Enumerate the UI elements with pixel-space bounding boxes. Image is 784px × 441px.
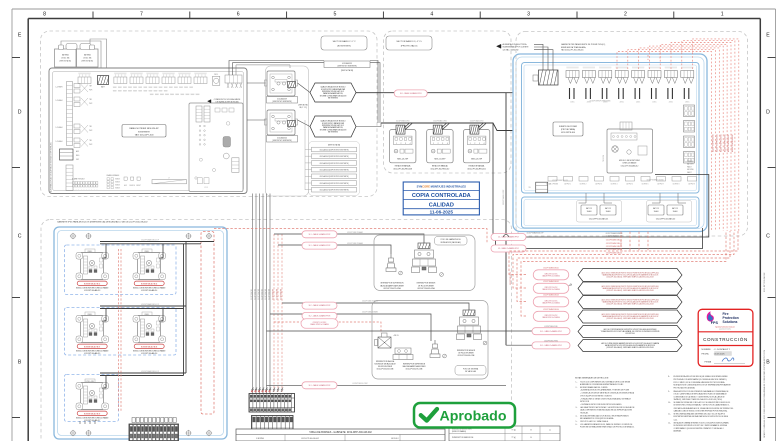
svg-text:6: 6	[237, 12, 240, 18]
svg-text:TAG: 0152-DPT-300: TAG: 0152-DPT-300	[135, 134, 155, 137]
node stacked black tags	[527, 232, 623, 238]
svg-text:OUTPUT 4: OUTPUT 4	[611, 183, 618, 185]
node feed annotation	[497, 43, 530, 51]
svg-text:SYNCORE MONTAJES INDUSTRIALES: SYNCORE MONTAJES INDUSTRIALES	[417, 185, 467, 189]
node vertical feed label	[50, 142, 53, 192]
svg-text:TBR: TBR	[89, 99, 92, 101]
svg-text:DE FLUJO EN RISER: DE FLUJO EN RISER	[418, 285, 435, 287]
svg-text:CONSTRUCCIÓN: CONSTRUCCIÓN	[703, 336, 748, 342]
node gabinete fuente annotation	[561, 59, 599, 65]
svg-text:PWR: PWR	[89, 144, 92, 146]
svg-text:TT [x]: TT [x]	[511, 437, 516, 439]
node sector bakko 1y2 zone	[41, 31, 378, 197]
node riser wire lugs	[251, 388, 283, 392]
node gabinete pms annotation	[561, 43, 606, 51]
wire SL1 bottom return	[267, 384, 507, 386]
svg-text:CONEXION T.B. NO ES ALCANCE: CONEXION T.B. NO ES ALCANCE	[214, 98, 241, 101]
node panel status LEDs row	[72, 178, 98, 191]
svg-text:0152DPTDBPWR24VDC: 0152DPTDBPWR24VDC	[728, 133, 730, 152]
node zone circuit row Z3	[56, 124, 93, 134]
wire SLC return	[236, 65, 290, 75]
wire module bus group1 pair	[100, 242, 214, 244]
op-amp M2 monitor module AM-014	[133, 249, 165, 292]
node label TS-015B	[403, 364, 427, 371]
node field devices zone	[41, 220, 512, 441]
node stacked red tags	[606, 239, 622, 255]
svg-text:1: 1	[470, 143, 471, 145]
node PSU output terminal blocks	[566, 67, 694, 104]
op-amp U3 power supply cabinet enclosure	[513, 54, 707, 232]
node cable tag A1L	[302, 231, 337, 238]
svg-text:0152-DPT-300-SV-015B: 0152-DPT-300-SV-015B	[377, 369, 394, 371]
node AUX SILENCE RESET buttons	[124, 177, 141, 187]
svg-text:2: 2	[400, 143, 401, 145]
svg-text:TAG 0152-DPT-300-GB-001: TAG 0152-DPT-300-GB-001	[561, 49, 584, 52]
svg-text:120 VAC / 50/60 HZ: 120 VAC / 50/60 HZ	[503, 48, 520, 51]
svg-text:(PROYECTADA): (PROYECTADA)	[561, 128, 576, 131]
node cable tag 24vdc row 3	[533, 293, 569, 307]
node panel output connector TB4	[225, 75, 242, 88]
node wire hop	[504, 235, 509, 238]
svg-text:0152-DPPS-300-BAT-002: 0152-DPPS-300-BAT-002	[656, 217, 675, 220]
svg-text:GABINETE PMS PARA FUENTE DE PO: GABINETE PMS PARA FUENTE DE PODER P02-6(…	[561, 43, 606, 46]
svg-text:MODULO: MODULO	[391, 438, 399, 440]
node riser terminal strip upper	[249, 391, 295, 413]
svg-text:PWR: PWR	[89, 90, 92, 92]
node group B title	[455, 366, 486, 376]
svg-text:Aprobado: Aprobado	[440, 408, 507, 424]
svg-text:SECTOR BAKKO 3, 4 Y 5: SECTOR BAKKO 3, 4 Y 5	[396, 40, 422, 43]
wire SL2 field B1	[282, 303, 469, 310]
transistor S2 manual station HSG-010	[427, 120, 453, 171]
node valve group B boundary	[372, 301, 488, 380]
node callout hexagon row 2	[578, 282, 682, 295]
svg-text:0152DPTDBPWR24VDC: 0152DPTDBPWR24VDC	[724, 133, 726, 152]
wire drop to M5	[103, 376, 107, 389]
node AC terminal block (hatched)	[533, 70, 558, 85]
battery B2	[77, 44, 99, 68]
svg-text:1-2 HIGH: 1-2 HIGH	[56, 100, 64, 102]
svg-text:GRAFICO-CADXXXX-0152-21063-000: GRAFICO-CADXXXX-0152-21063-00005 REV.0 D…	[763, 349, 766, 438]
svg-text:Solutions: Solutions	[723, 320, 738, 324]
wire red hook inner pair	[648, 53, 660, 60]
node cable tag 24vdc row 1	[533, 266, 569, 280]
svg-text:J7: J7	[168, 178, 170, 180]
node document id vertical	[763, 349, 766, 438]
node COPIA CONTROLADA stamp	[403, 182, 479, 215]
node sector 1y2 label	[321, 36, 367, 50]
transistor S1 manual station HSG-008	[390, 120, 416, 171]
svg-text:PWR: PWR	[89, 103, 92, 105]
node panel top terminal blocks TB1	[78, 73, 207, 84]
node panel nameplate	[122, 125, 166, 138]
svg-text:[DISPOSITIVO EXISTENTE]: [DISPOSITIVO EXISTENTE]	[337, 66, 357, 68]
node callout hexagon row 4	[578, 310, 682, 323]
node valve group A boundary	[374, 235, 475, 291]
node panel silk texture rows	[113, 87, 199, 95]
wire SL2 field B2	[270, 314, 431, 341]
op-amp U4 monitor module AM-012	[607, 122, 653, 173]
node cable tag A2L	[302, 242, 337, 249]
svg-text:CIRCUITO 24 VDC: CIRCUITO 24 VDC	[545, 273, 559, 275]
svg-text:0152DPTDBMNTFLOOR: 0152DPTDBMNTFLOOR	[552, 180, 568, 182]
svg-text:24VDC: 24VDC	[669, 102, 673, 104]
node cable tag 24vdc row 4	[533, 308, 569, 322]
svg-text:NOMBRE: NOMBRE	[702, 349, 712, 351]
wire AC feed lines	[534, 44, 553, 70]
svg-text:OUTPUT 6: OUTPUT 6	[642, 183, 649, 185]
svg-text:8: 8	[43, 12, 46, 18]
svg-text:24VDC: 24VDC	[570, 102, 574, 104]
svg-text:OUTPUT 9: OUTPUT 9	[688, 183, 695, 185]
svg-text:OUTPUT 2: OUTPUT 2	[580, 183, 587, 185]
wire D2 to H2	[298, 120, 311, 127]
wire SLC trunk to right panel	[356, 92, 545, 94]
svg-text:OUTPUT 3: OUTPUT 3	[595, 183, 602, 185]
svg-text:0152DPTDBSDSLCRET: 0152DPTDBSDSLCRET	[352, 383, 367, 385]
node wire tag field2	[347, 242, 363, 245]
svg-text:0152-DPT-300-HSG-011: 0152-DPT-300-HSG-011	[467, 168, 486, 170]
svg-text:1: 1	[396, 143, 397, 145]
node fuente de poder label	[553, 122, 583, 136]
svg-text:+PR IVL: +PR IVL	[393, 335, 399, 337]
svg-text:ESTACION MANUAL: ESTACION MANUAL	[432, 165, 448, 168]
transistor tamper B	[430, 340, 446, 358]
node gabinete modulos header	[57, 220, 148, 223]
wire modules to terminal strip	[80, 421, 95, 424]
svg-text:24VDC: 24VDC	[652, 102, 656, 104]
node cable tag 24vdc row 2	[533, 280, 569, 294]
svg-text:PANEL NOTIFIER NFS-320-SP: PANEL NOTIFIER NFS-320-SP	[129, 127, 159, 130]
node wire tag group3	[141, 370, 159, 373]
node cable tag B2L	[302, 312, 337, 319]
svg-text:(PROYECTADO): (PROYECTADO)	[401, 45, 418, 48]
svg-text:: C. GONZALEZ T.: : C. GONZALEZ T.	[713, 348, 731, 351]
wire panel to device D2	[247, 119, 266, 121]
svg-text:OTROS EQUIPOS EXISTENTES O NUE: OTROS EQUIPOS EXISTENTES O NUEVOS	[580, 395, 612, 397]
svg-text:CALIDAD: CALIDAD	[429, 202, 454, 208]
battery B1	[55, 44, 78, 68]
svg-text:4: 4	[410, 143, 411, 145]
node bus rotated tag red	[510, 272, 512, 285]
node panel battery connector BATT (hatched)	[98, 76, 110, 89]
node mounting holes bottom	[70, 430, 212, 436]
svg-text:NBG-12LXSP: NBG-12LXSP	[471, 159, 483, 161]
battery bank 1	[577, 193, 622, 222]
node callout hexagon slc feed	[578, 340, 682, 352]
wire panel to device D1	[247, 82, 266, 84]
svg-text:ALIMENTACION AC DE ALARMA DE I: ALIMENTACION AC DE ALARMA DE INCENDIO [V…	[50, 142, 53, 192]
wire 24vdc red hook bundle	[617, 39, 739, 231]
wire trunk pair g1-g2	[184, 242, 187, 309]
svg-text:5: 5	[334, 12, 337, 18]
node right power zone boundary	[516, 32, 748, 237]
svg-text:: 04.06.2025: : 04.06.2025	[713, 354, 725, 356]
node mounting holes top	[70, 233, 212, 239]
svg-text:DETECCION: DETECCION	[580, 401, 589, 403]
node relay block	[528, 182, 547, 193]
node TBL power block	[60, 149, 81, 161]
svg-text:0152DPTDBPWR24VDC: 0152DPTDBPWR24VDC	[720, 133, 722, 152]
svg-text:C: C	[766, 234, 770, 240]
svg-text:0152-DPPS-300-BAT-001: 0152-DPPS-300-BAT-001	[589, 217, 608, 220]
svg-text:FUENTE DE PODER: FUENTE DE PODER	[559, 126, 578, 128]
node cable tag slc feed	[532, 340, 570, 349]
svg-text:INTERRUPTOR SENSOR: INTERRUPTOR SENSOR	[457, 350, 476, 352]
wire AW box to dropline	[370, 61, 380, 124]
svg-text:D: D	[766, 110, 770, 116]
svg-text:xx: xx	[549, 429, 551, 431]
wire slc return row	[267, 330, 533, 332]
svg-text:N BORNE: N BORNE	[256, 438, 265, 440]
svg-text:B: B	[530, 429, 531, 431]
svg-text:TT [x]: TT [x]	[511, 429, 516, 431]
svg-text:OUTPUT 5: OUTPUT 5	[626, 183, 633, 185]
op-amp U2 panel CPU board	[189, 103, 243, 192]
node callout hexagon row 1	[578, 269, 682, 282]
wire 24vdc solenoid red	[274, 322, 381, 333]
svg-text:3: 3	[442, 143, 443, 145]
node trunk rotated tag	[502, 190, 505, 205]
wire riser tags	[250, 289, 283, 300]
svg-text:SECTOR BAKKO 1 Y 2: SECTOR BAKKO 1 Y 2	[333, 40, 357, 43]
svg-text:CIRCUITO 24 VDC: CIRCUITO 24 VDC	[545, 300, 559, 302]
svg-text:E: E	[18, 33, 22, 39]
node sector bakko 345 zone	[384, 31, 512, 173]
op-amp U1 panel NOTIFIER NFS-320-SP enclosure	[49, 68, 247, 194]
svg-text:DILUVIO EN RISER: DILUVIO EN RISER	[378, 366, 393, 368]
node cable tag slc return	[532, 326, 570, 335]
node wire tag group2	[141, 303, 159, 306]
svg-text:B: B	[766, 360, 770, 366]
wire SLC out to AW box	[229, 61, 324, 76]
svg-text:3: 3	[527, 12, 530, 18]
node wire tag field1	[347, 231, 363, 234]
node label SV-015B	[374, 360, 395, 371]
transistor FS-015A flow switch	[412, 243, 444, 276]
node zone circuit row Z1	[56, 84, 93, 94]
svg-text:4: 4	[430, 12, 433, 18]
wire riser bundle red	[274, 234, 282, 394]
svg-text:4: 4	[484, 143, 485, 145]
svg-text:[DISPOSITIVO EXISTENTE]: [DISPOSITIVO EXISTENTE]	[272, 140, 292, 142]
wire drop to M3	[103, 309, 107, 322]
svg-text:PWR: PWR	[89, 130, 92, 132]
node trouble contact symbol	[562, 284, 571, 290]
node device cluster enclosure	[266, 66, 309, 196]
svg-text:4: 4	[447, 143, 448, 145]
wire module bus group2 pair	[100, 306, 186, 309]
wire red supervised pair vertical	[119, 249, 122, 412]
node cable tag right A	[491, 234, 526, 241]
node wire tag group1	[141, 238, 159, 241]
node label FS-015A	[417, 283, 437, 290]
node module group 1 boundary	[65, 245, 177, 295]
svg-text:GABINETE IP66 PARA MODULOS (EM: GABINETE IP66 PARA MODULOS (EMERGENCIA) …	[57, 220, 148, 223]
wire D1 to H1	[298, 83, 311, 93]
node label TS-015A	[380, 283, 404, 290]
node callout hexagon row 3	[578, 296, 682, 309]
svg-text:FECHA: FECHA	[702, 353, 710, 356]
node strip pre-row	[132, 418, 176, 423]
svg-text:3B, 1 Y 5]: 3B, 1 Y 5]	[299, 107, 307, 109]
op-amp M5 relay module AM-017	[76, 379, 108, 422]
svg-text:ALIMENTACION ELECTRICA: ALIMENTACION ELECTRICA	[503, 43, 528, 46]
battery bank 2	[647, 193, 692, 222]
wire SL1 field A2	[278, 245, 391, 254]
wire module bus group3 pair	[100, 373, 186, 376]
node ver nota label	[299, 104, 309, 110]
svg-text:CIRCUITO 24 VDC: CIRCUITO 24 VDC	[545, 287, 559, 289]
node module group 3 boundary	[65, 375, 119, 422]
svg-text:DIRECCIONABLE: DIRECCIONABLE	[623, 162, 638, 165]
svg-text:11-06-2025: 11-06-2025	[430, 209, 454, 214]
wire slc branch row2	[496, 228, 703, 249]
svg-text:E: E	[766, 33, 770, 39]
svg-text:NBG-12LXSP: NBG-12LXSP	[397, 159, 409, 161]
op-amp M4 monitor module AM-016	[133, 312, 165, 355]
svg-text:1: 1	[433, 143, 434, 145]
wire stations bus	[381, 123, 528, 131]
node wire tag bottom	[352, 383, 367, 385]
svg-text:0152-DPT-300-GB-002: 0152-DPT-300-GB-002	[764, 273, 766, 292]
node TB-DCOM vertical tag	[603, 154, 605, 162]
svg-text:1: 1	[721, 12, 724, 18]
wire drop to M2	[160, 244, 164, 258]
svg-text:3: 3	[405, 143, 406, 145]
node wire tag field3	[362, 300, 378, 303]
svg-text:NOTAS GENERALES DE DETECCION: NOTAS GENERALES DE DETECCION	[575, 377, 609, 380]
svg-text:7: 7	[140, 12, 143, 18]
svg-text:OUTPUT 7: OUTPUT 7	[657, 183, 664, 185]
node red supervised conduit	[201, 232, 214, 415]
svg-text:FPS: FPS	[711, 321, 719, 325]
svg-text:24VDC: 24VDC	[620, 102, 624, 104]
svg-text:GROUND: GROUND	[687, 169, 695, 171]
node signal output row	[546, 177, 697, 186]
wire SL1 field A1	[274, 234, 424, 243]
svg-text:0152-DPT-300-FS-015B: 0152-DPT-300-FS-015B	[458, 355, 475, 357]
svg-text:TBR: TBR	[89, 126, 92, 128]
svg-text:J2 J3: J2 J3	[204, 187, 208, 189]
svg-text:B: B	[18, 360, 22, 366]
transistor D2 existing device 0152-AW-340	[265, 110, 298, 142]
svg-text:0152-DPPS-300: 0152-DPPS-300	[561, 132, 575, 134]
transistor FS-015B flow switch	[457, 310, 487, 345]
node cable tag right B	[491, 245, 526, 252]
svg-text:1-2 HIGH: 1-2 HIGH	[56, 127, 64, 129]
node page ref vertical	[764, 273, 766, 292]
node enable-disable switch block	[107, 174, 121, 189]
wire red drops under panel	[621, 232, 648, 252]
svg-text:0152DPTDBPWR24VDC: 0152DPTDBPWR24VDC	[732, 133, 734, 152]
transistor TS-015A tamper switch	[386, 254, 402, 275]
svg-text:EXISTENTE: EXISTENTE	[138, 131, 150, 133]
node ribbon connector J7	[152, 178, 187, 184]
wire SLC out 2	[233, 63, 325, 75]
transistor D1 existing device 0152-AW-339	[265, 71, 298, 103]
svg-text:INTERRUPTOR SUPERVISION: INTERRUPTOR SUPERVISION	[403, 364, 425, 366]
node AW-339 existing device label box	[324, 61, 370, 72]
node module summary table	[449, 426, 560, 441]
wire drop to M4	[160, 309, 164, 322]
svg-text:COPIA CONTROLADA: COPIA CONTROLADA	[412, 193, 471, 199]
node zone circuit row Z4	[56, 138, 93, 148]
node riser cable tags rotated	[713, 133, 735, 152]
wire slc feed row	[506, 344, 532, 346]
svg-text:[VER NOTA 3B]: [VER NOTA 3B]	[328, 144, 340, 147]
node piezo sounder	[213, 74, 220, 86]
svg-text:SILENCE: SILENCE	[129, 185, 135, 187]
transistor SV-015B solenoid	[375, 333, 399, 348]
svg-text:[DISPOSITIVO EXISTENTE]: [DISPOSITIVO EXISTENTE]	[272, 101, 292, 103]
node module group 2 boundary	[65, 308, 177, 356]
svg-text:DE YAZPACK [VER NOTA 3B]: DE YAZPACK [VER NOTA 3B]	[216, 101, 239, 104]
svg-text:0152-DPT-300-TS-015B: 0152-DPT-300-TS-015B	[406, 369, 423, 371]
svg-text:0152-DPT-300-HSG-010: 0152-DPT-300-HSG-010	[431, 168, 450, 170]
svg-text:MODULO DE MONITOREO: MODULO DE MONITOREO	[619, 160, 641, 162]
node zone circuit row Z2	[56, 97, 93, 107]
wire trunk pair g2-g3	[184, 306, 187, 376]
svg-text:EN TERRENO: EN TERRENO	[328, 131, 339, 133]
wire slc branch row1	[493, 123, 709, 237]
wire hexagon H2 to bus	[356, 123, 381, 127]
node conexion note	[208, 98, 242, 104]
wire nested 24vdc red bus	[509, 231, 738, 316]
svg-text:RESET: RESET	[136, 185, 141, 187]
svg-text:CIRCUITO 24 VDC: CIRCUITO 24 VDC	[545, 315, 559, 317]
wire trunk drop	[505, 93, 507, 346]
svg-text:0152-DPT-300: 0152-DPT-300	[625, 333, 635, 335]
op-amp M3 monitor module AM-015	[76, 312, 108, 355]
svg-text:C: C	[18, 234, 22, 240]
svg-text:TABLA DE BORNES - GABINETE:: TABLA DE BORNES - GABINETE: 0152-DPP-300…	[309, 431, 372, 434]
svg-text:OUTPUT 1: OUTPUT 1	[564, 183, 571, 185]
wire red supervised loop A	[214, 229, 487, 243]
svg-text:0152-DTP-300-AM-012: 0152-DTP-300-AM-012	[621, 164, 639, 167]
node wire tag psu	[590, 100, 611, 103]
node callout hexagon H1	[310, 83, 356, 102]
transistor S3 manual station HSG-011	[463, 120, 489, 171]
svg-text:3: 3	[479, 143, 480, 145]
svg-text:EN TERRENO: EN TERRENO	[328, 97, 339, 99]
svg-text:0152DPTDBU24VDC: 0152DPTDBU24VDC	[510, 272, 512, 285]
svg-text:(EXISTENTE): (EXISTENTE)	[337, 46, 351, 48]
svg-text:0152-DPP-300-GB-002: 0152-DPP-300-GB-002	[301, 438, 319, 440]
node gabinete terminal strip TB	[129, 424, 179, 441]
node wire tag mnt	[552, 180, 568, 182]
svg-text:ESTACION MANUAL: ESTACION MANUAL	[469, 165, 485, 168]
svg-text:24VDC: 24VDC	[636, 102, 640, 104]
node auxiliary connectors column	[684, 105, 695, 163]
node group A title	[435, 237, 468, 246]
svg-text:TBR: TBR	[89, 140, 92, 142]
svg-text:[VER NOTA 3B]: [VER NOTA 3B]	[341, 69, 353, 72]
svg-text:D: D	[18, 110, 22, 116]
svg-text:POWER: POWER	[687, 161, 694, 163]
svg-text:1-2 HIGH: 1-2 HIGH	[56, 141, 64, 143]
node callout hexagon slc return	[578, 326, 682, 338]
svg-text:0152DPTDBPWR24VDC: 0152DPTDBPWR24VDC	[713, 133, 715, 152]
node label FS-015B	[457, 350, 476, 357]
svg-text:2: 2	[438, 143, 439, 145]
svg-text:3-4-5.: 3-4-5.	[674, 419, 679, 421]
wire riser bundle from panel	[253, 194, 271, 394]
node power battery fault legend	[687, 161, 695, 174]
op-amp U5 gabinete modulos enclosure	[54, 227, 227, 439]
svg-text:CIRCUITO 24 VDC: CIRCUITO 24 VDC	[313, 322, 328, 324]
svg-text:24VDC: 24VDC	[685, 102, 689, 104]
